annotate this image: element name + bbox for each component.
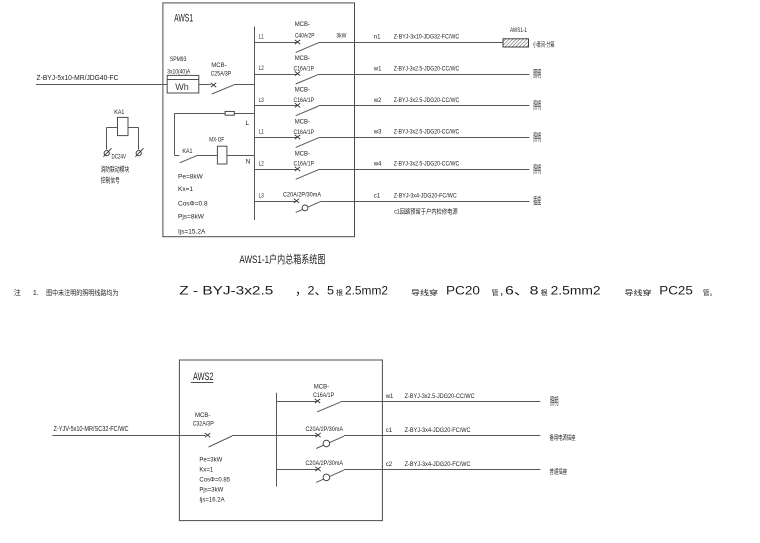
RCD breaker contact with residual element row 6 (294, 199, 299, 203)
svg-text:6、8: 6、8 (505, 284, 539, 298)
svg-text:C20A/2P/30mA: C20A/2P/30mA (306, 461, 344, 467)
panel enclosure AWS1 (163, 3, 355, 237)
svg-text:Z-BYJ-3x2.5-JDG20-CC/WC: Z-BYJ-3x2.5-JDG20-CC/WC (405, 394, 476, 400)
svg-text:Z-BYJ-3x2.5-JDG20-CC/WC: Z-BYJ-3x2.5-JDG20-CC/WC (394, 98, 460, 104)
svg-text:Ijs=16.2A: Ijs=16.2A (199, 498, 224, 504)
svg-text:消防联动模块: 消防联动模块 (101, 164, 129, 173)
wire RCD to circuit end row c2 (AWS2) (344, 469, 541, 471)
svg-text:w1: w1 (373, 66, 382, 72)
panel enclosure AWS2 (179, 360, 382, 521)
branch breaker contact row 1 (295, 40, 300, 44)
svg-text:Pe=3kW: Pe=3kW (199, 458, 222, 464)
svg-text:Z-YJV-5x10-MR/SC32-FC/WC: Z-YJV-5x10-MR/SC32-FC/WC (54, 426, 129, 433)
svg-text:MX-OF: MX-OF (209, 138, 224, 144)
wire busbar to breaker row 3 (254, 105, 297, 107)
svg-text:DC24V: DC24V (112, 154, 127, 160)
svg-text:AWS2: AWS2 (193, 371, 214, 383)
svg-text:w2: w2 (373, 98, 382, 104)
svg-text:C32A/3P: C32A/3P (193, 421, 214, 427)
svg-text:照明: 照明 (550, 396, 559, 408)
svg-text:小套间-分箱: 小套间-分箱 (533, 40, 555, 49)
relay coil KA1 (118, 117, 129, 135)
busbar AWS1 (254, 27, 256, 221)
svg-text:c2: c2 (386, 462, 393, 468)
branch breaker contact row 2 (295, 72, 300, 76)
terminal left (DC24V) (104, 151, 109, 156)
svg-text:插座: 插座 (533, 195, 541, 208)
svg-text:w4: w4 (373, 162, 382, 168)
svg-text:CosΦ=0.85: CosΦ=0.85 (199, 478, 230, 484)
svg-text:Kx=1: Kx=1 (199, 468, 214, 474)
wire main breaker to busbar AWS2 (232, 435, 276, 437)
svg-text:AWS1-1户内总箱系统图: AWS1-1户内总箱系统图 (239, 252, 325, 266)
svg-text:2.5mm2: 2.5mm2 (551, 284, 601, 298)
svg-text:C20A/2P/30mA: C20A/2P/30mA (283, 193, 321, 199)
wire RCD to circuit end row 6 (320, 201, 529, 203)
svg-text:MCB-: MCB- (211, 63, 226, 69)
wire busbar to RCD row c1 (AWS2) (276, 435, 317, 437)
svg-text:备用电源插座: 备用电源插座 (550, 433, 576, 442)
svg-text:普通插座: 普通插座 (550, 466, 568, 475)
svg-text:C40A/2P: C40A/2P (295, 34, 315, 40)
svg-text:MCB-: MCB- (295, 151, 310, 157)
svg-text:MCB-: MCB- (295, 119, 310, 125)
main breaker (C32A/3P) contact AWS2 (205, 433, 210, 437)
svg-text:C20A/2P/30mA: C20A/2P/30mA (306, 427, 344, 433)
RCD breaker contact row c1 (AWS2) (315, 433, 320, 437)
svg-text:PC20: PC20 (446, 284, 480, 298)
svg-text:L1: L1 (259, 34, 264, 41)
svg-text:L1: L1 (259, 129, 264, 136)
kWh meter Wh (167, 75, 199, 93)
svg-text:Pjs=3kW: Pjs=3kW (199, 488, 223, 494)
branch breaker contact row w1 (315, 399, 320, 403)
svg-text:Z-BYJ-3x10-JDG32-FC/WC: Z-BYJ-3x10-JDG32-FC/WC (394, 35, 460, 41)
svg-text:Z - BYJ-3x2.5: Z - BYJ-3x2.5 (179, 284, 273, 298)
wire busbar to breaker row w1 (276, 401, 317, 403)
svg-text:1.: 1. (33, 290, 39, 297)
terminal right (136, 151, 141, 156)
svg-text:Pjs=8kW: Pjs=8kW (178, 213, 205, 220)
svg-text:C25A/3P: C25A/3P (211, 72, 232, 78)
svg-text:管。: 管。 (703, 288, 717, 297)
svg-text:根: 根 (336, 288, 343, 297)
svg-text:，2、5: ，2、5 (295, 284, 334, 298)
main breaker QF (C25A/3P) contact (211, 83, 216, 87)
wire breaker to circuit end row 5 (319, 169, 530, 171)
svg-text:L2: L2 (259, 65, 264, 72)
svg-text:Pe=8kW: Pe=8kW (178, 174, 204, 181)
wire Wh to main breaker (199, 84, 211, 86)
svg-text:w1: w1 (385, 394, 394, 400)
wire left vertical of trip circuit (174, 113, 176, 155)
wire breaker to circuit end row 4 (319, 137, 530, 139)
svg-text:管: 管 (492, 288, 499, 297)
svg-text:照明: 照明 (533, 164, 541, 176)
svg-text:Z-BYJ-3x2.5-JDG20-CC/WC: Z-BYJ-3x2.5-JDG20-CC/WC (394, 66, 460, 72)
svg-text:3x10(40)A: 3x10(40)A (167, 70, 190, 76)
branch breaker contact row 3 (295, 103, 300, 107)
sub-panel box AWS1-1 (hatched) (503, 39, 529, 47)
wire stub to KA1 contact (175, 155, 180, 157)
svg-text:c1: c1 (374, 194, 381, 200)
svg-text:MCB-: MCB- (295, 56, 310, 62)
RCD breaker contact row c2 (AWS2) (315, 467, 320, 471)
wire breaker to circuit end row 3 (319, 105, 530, 107)
svg-text:L3: L3 (259, 97, 264, 104)
svg-text:Z-BYJ-5x10-MR/JDG40-FC: Z-BYJ-5x10-MR/JDG40-FC (37, 73, 120, 82)
svg-text:C16A/1P: C16A/1P (294, 98, 315, 104)
svg-text:AWS1-1: AWS1-1 (510, 28, 528, 34)
svg-text:CosΦ=0.8: CosΦ=0.8 (178, 200, 208, 207)
svg-text:Z-BYJ-3x2.5-JDG20-CC/WC: Z-BYJ-3x2.5-JDG20-CC/WC (394, 130, 460, 136)
svg-text:Kx=1: Kx=1 (178, 186, 193, 193)
svg-text:KA1: KA1 (182, 149, 193, 155)
svg-text:L2: L2 (259, 161, 264, 168)
wire breaker to circuit end row 2 (319, 74, 530, 76)
svg-text:Ijs=15.2A: Ijs=15.2A (178, 228, 206, 235)
wire busbar to RCD row 6 (254, 201, 296, 203)
wire relay right lead (128, 127, 139, 129)
svg-text:导线穿: 导线穿 (625, 288, 652, 297)
wire incoming feeder AWS2 (52, 435, 205, 437)
svg-text:Wh: Wh (175, 82, 189, 92)
wire busbar to breaker row 1 (254, 42, 297, 44)
svg-text:Z-BYJ-3x4-JDG20-FC/WC: Z-BYJ-3x4-JDG20-FC/WC (405, 462, 472, 468)
fuse FU on L wire (225, 111, 234, 115)
svg-text:C16A/1P: C16A/1P (294, 130, 315, 136)
wire busbar to RCD row c2 (AWS2) (276, 469, 317, 471)
svg-text:w3: w3 (373, 130, 382, 136)
svg-text:根: 根 (541, 288, 548, 297)
svg-text:Z-BYJ-3x4-JDG20-FC/WC: Z-BYJ-3x4-JDG20-FC/WC (405, 428, 472, 434)
wire main breaker to busbar (234, 84, 254, 86)
svg-text:MCB-: MCB- (295, 22, 310, 28)
svg-text:Z-BYJ-3x2.5-JDG20-CC/WC: Z-BYJ-3x2.5-JDG20-CC/WC (394, 162, 460, 168)
svg-text:MCB-: MCB- (314, 385, 329, 391)
branch breaker contact row 5 (295, 167, 300, 171)
wire MX-OF coil to busbar (227, 155, 254, 157)
svg-text:L3: L3 (259, 192, 264, 199)
busbar AWS2 (276, 393, 278, 487)
svg-text:,: , (500, 284, 503, 298)
svg-text:图中未注明的照明线路均为: 图中未注明的照明线路均为 (46, 288, 118, 297)
svg-text:2.5mm2: 2.5mm2 (345, 284, 388, 298)
svg-text:控制信号: 控制信号 (101, 176, 120, 185)
branch breaker contact row 4 (295, 135, 300, 139)
wire busbar to breaker row 5 (254, 169, 297, 171)
wire RCD to circuit end row c1 (AWS2) (344, 435, 541, 437)
svg-text:C16A/1P: C16A/1P (294, 162, 315, 168)
svg-text:C16A/1P: C16A/1P (313, 393, 334, 399)
svg-text:c1回路预留于户内检修电源: c1回路预留于户内检修电源 (394, 207, 458, 216)
svg-text:照明: 照明 (533, 100, 541, 112)
svg-text:SPM93: SPM93 (170, 57, 187, 63)
shunt trip coil MX-OF (217, 146, 227, 164)
svg-text:PC25: PC25 (659, 284, 693, 298)
relay contact KA1 (NO) (180, 156, 197, 163)
svg-text:n1: n1 (374, 35, 381, 41)
svg-text:注: 注 (14, 288, 21, 297)
svg-text:KA1: KA1 (114, 110, 125, 116)
wire breaker to circuit end row 1 (319, 42, 503, 44)
svg-text:C16A/1P: C16A/1P (294, 66, 315, 72)
wire busbar to breaker row 4 (254, 137, 297, 139)
wire incoming feeder (36, 84, 167, 86)
svg-text:导线穿: 导线穿 (411, 288, 438, 297)
wire L from busbar with fuse (175, 113, 255, 115)
wire busbar to breaker row 2 (254, 74, 297, 76)
svg-text:MCB-: MCB- (195, 413, 210, 419)
wire relay left lead (107, 127, 118, 129)
svg-text:L: L (246, 120, 250, 127)
svg-text:N: N (246, 158, 251, 165)
svg-text:照明: 照明 (533, 69, 541, 81)
svg-text:Z-BYJ-3x4-JDG20-FC/WC: Z-BYJ-3x4-JDG20-FC/WC (394, 194, 458, 200)
wire breaker to circuit end row w1 (341, 401, 541, 403)
svg-text:3kW: 3kW (336, 34, 346, 40)
svg-text:c1: c1 (386, 428, 393, 434)
svg-text:MCB-: MCB- (295, 88, 310, 94)
svg-text:AWS1: AWS1 (174, 13, 193, 25)
wire KA1 contact to MX-OF coil (196, 155, 217, 157)
svg-text:照明: 照明 (533, 132, 541, 144)
